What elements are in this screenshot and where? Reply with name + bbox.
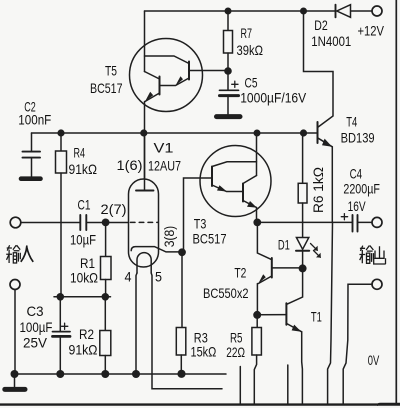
- resistor R7 39k: [227, 11, 229, 31]
- node R7 top junction: [225, 8, 232, 15]
- svg-text:R6 1kΩ: R6 1kΩ: [311, 167, 326, 213]
- svg-text:R2: R2: [79, 327, 94, 342]
- node grid / C1 / R1: [102, 219, 110, 227]
- terminal output: [372, 217, 382, 227]
- wire pin4: [136, 273, 137, 374]
- svg-text:1(6): 1(6): [117, 158, 143, 173]
- resistor R1 10k: [105, 222, 107, 256]
- wire main rail y133: [32, 132, 318, 134]
- node T3 emitter / output: [253, 219, 261, 227]
- svg-text:+12V: +12V: [358, 24, 385, 39]
- resistor R4 91k: [60, 133, 62, 151]
- node C2/R4: [57, 129, 64, 136]
- svg-text:R7: R7: [241, 26, 253, 41]
- wire T3 collector vertical: [256, 133, 258, 176]
- svg-text:91kΩ: 91kΩ: [69, 162, 98, 177]
- wire rail R4/R1 bottoms: [54, 296, 111, 298]
- svg-text:100nF: 100nF: [18, 113, 51, 128]
- node T4 base / R6: [300, 129, 307, 136]
- wire stub B: [287, 365, 289, 404]
- svg-text:3(8): 3(8): [162, 226, 177, 248]
- wire T4 emitter down: [331, 147, 333, 223]
- wire input to C1: [21, 222, 80, 224]
- wire bottom rail: [15, 373, 227, 375]
- svg-text:BC517: BC517: [193, 232, 227, 247]
- capacitor C1 10uF: [79, 215, 81, 230]
- svg-text:C5: C5: [245, 76, 258, 91]
- diode D2 1N4001: [337, 5, 351, 18]
- node D1/T2 base/T1 collector: [299, 264, 307, 272]
- svg-text:16V: 16V: [348, 199, 367, 214]
- svg-text:0V: 0V: [368, 353, 380, 368]
- svg-text:T2: T2: [234, 266, 246, 281]
- LED D1: [296, 238, 308, 250]
- svg-text:1000µF/16V: 1000µF/16V: [240, 91, 307, 106]
- ground input: [14, 374, 16, 387]
- wire T3 emitter vertical: [256, 208, 258, 223]
- wire output line: [257, 221, 352, 223]
- terminal input upper: [10, 217, 21, 228]
- svg-text:C4: C4: [350, 166, 363, 181]
- wire D2 to T4 collector: [304, 11, 334, 128]
- resistor R3 15k: [181, 252, 183, 327]
- svg-text:25V: 25V: [23, 336, 48, 351]
- svg-text:T3: T3: [194, 217, 207, 232]
- capacitor C5 1000uF/16V: [227, 71, 229, 90]
- wire T5 emitter to plate: [144, 102, 146, 191]
- wire 0V: [343, 284, 372, 404]
- border right: [395, 0, 397, 404]
- node T2 emitter / T1 base / R5: [253, 311, 261, 319]
- node R2 top: [102, 293, 110, 301]
- border bottom: [0, 403, 400, 405]
- capacitor C4 2200uF: [341, 216, 347, 218]
- svg-text:R5: R5: [230, 331, 243, 346]
- svg-text:4: 4: [125, 270, 132, 285]
- label output chinese: [359, 246, 385, 265]
- transistor T2 BC550x2: [257, 222, 271, 259]
- svg-text:12AU7: 12AU7: [148, 159, 181, 174]
- svg-text:39kΩ: 39kΩ: [237, 43, 264, 58]
- svg-text:T1: T1: [311, 309, 322, 324]
- tube plate: [144, 133, 146, 191]
- svg-text:10kΩ: 10kΩ: [70, 271, 98, 286]
- wire pin5: [151, 273, 222, 389]
- svg-text:C3: C3: [27, 304, 44, 319]
- svg-text:BC517: BC517: [90, 81, 123, 96]
- node C3 top: [57, 293, 65, 301]
- svg-text:1N4001: 1N4001: [311, 34, 351, 49]
- transistor T5 BC517 darlington: [130, 39, 203, 112]
- svg-text:T4: T4: [346, 114, 357, 129]
- svg-text:2200µF: 2200µF: [343, 182, 380, 197]
- svg-text:D2: D2: [314, 18, 328, 33]
- node T3 collector: [254, 130, 261, 137]
- transistor T3 BC517 darlington: [200, 146, 271, 217]
- wire T5 collector vertical: [144, 11, 146, 72]
- tube heater: [137, 253, 151, 273]
- svg-text:V1: V1: [154, 141, 174, 156]
- tube cathode: [131, 247, 182, 252]
- svg-text:R4: R4: [74, 146, 86, 161]
- transistor T4 BD139: [317, 122, 319, 143]
- svg-text:10µF: 10µF: [70, 232, 96, 247]
- svg-text:91kΩ: 91kΩ: [69, 343, 98, 358]
- node R7/C5/T5 base junction: [224, 67, 232, 75]
- svg-text:22Ω: 22Ω: [226, 345, 245, 360]
- ground C5: [217, 114, 241, 119]
- node plate lead: [140, 129, 147, 136]
- label input chinese: [6, 245, 33, 263]
- resistor R6 1k: [302, 133, 304, 183]
- svg-text:100µF: 100µF: [20, 320, 53, 335]
- svg-text:BC550x2: BC550x2: [203, 286, 249, 301]
- wire R6 to D1: [302, 203, 304, 238]
- ground C2: [21, 176, 41, 181]
- svg-text:D1: D1: [278, 238, 290, 253]
- wire +12V top rail: [145, 10, 336, 12]
- svg-text:BD139: BD139: [341, 131, 375, 146]
- terminal +12V: [372, 6, 382, 16]
- svg-text:C1: C1: [78, 198, 91, 213]
- svg-text:T5: T5: [105, 64, 117, 79]
- node D2 anode junction: [300, 8, 307, 15]
- svg-text:15kΩ: 15kΩ: [191, 345, 217, 360]
- node cathode junction: [178, 248, 186, 256]
- wire stub A: [239, 367, 241, 405]
- svg-text:R3: R3: [194, 331, 208, 346]
- tube grid dashed: [130, 221, 158, 223]
- tube V1 12AU7 envelope: [129, 179, 159, 267]
- resistor R2 91k: [104, 297, 106, 331]
- terminal 0V return: [372, 279, 382, 289]
- capacitor C3 100uF electrolytic: [59, 297, 61, 331]
- svg-text:2(7): 2(7): [101, 202, 127, 217]
- transistor T1: [257, 314, 286, 316]
- svg-text:R1: R1: [80, 256, 95, 271]
- resistor R5 22R: [256, 315, 258, 328]
- terminal input lower: [10, 280, 20, 290]
- svg-text:5: 5: [155, 270, 162, 285]
- capacitor C2 100nF: [31, 133, 33, 151]
